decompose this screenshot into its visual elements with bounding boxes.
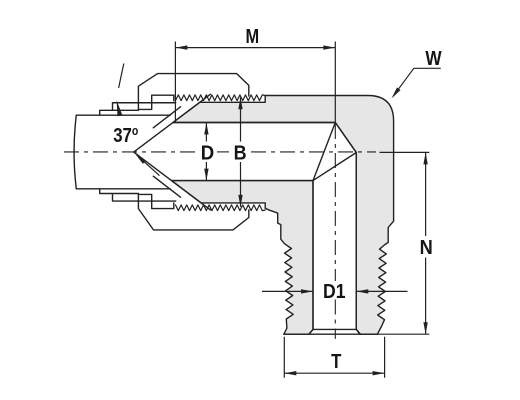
centerline dash between D and B bbox=[217, 151, 229, 153]
dimension D1 lines bbox=[262, 290, 408, 292]
sleeve lower bbox=[100, 189, 176, 209]
bore top wall bbox=[173, 122, 335, 124]
dimension M line bbox=[175, 47, 335, 49]
dimension N extension lines bbox=[377, 152, 429, 334]
vertical bore walls with exit chamfer bbox=[309, 153, 361, 335]
dimension T extension lines bbox=[284, 337, 384, 378]
dimension M extension lines bbox=[175, 42, 335, 123]
bore bottom wall bbox=[172, 180, 314, 182]
leader arrow to sleeve bbox=[119, 64, 124, 89]
tube (left, broken end) bbox=[76, 115, 170, 189]
tube flare (inner cone edges) bbox=[153, 107, 180, 197]
dimension D lines bbox=[205, 123, 207, 181]
bottom face bbox=[284, 333, 378, 335]
vertical centerline of bottom port bbox=[334, 124, 336, 281]
body elbow (gray cross-section, lower-left mass) bbox=[172, 181, 314, 335]
male threads + nut threads (meshed) bbox=[176, 95, 266, 211]
leader W bbox=[393, 68, 441, 96]
cone transition triangle bbox=[313, 123, 356, 181]
body elbow (gray cross-section, upper-right mass) bbox=[173, 96, 394, 335]
svg-text:D: D bbox=[201, 143, 214, 165]
body outline upper-right bbox=[173, 96, 394, 335]
sleeve upper bbox=[100, 95, 176, 115]
bore exit chamfer ring line bbox=[313, 328, 356, 330]
svg-text:B: B bbox=[234, 143, 247, 165]
leader 37deg bbox=[138, 156, 160, 175]
horizontal centerline bbox=[64, 151, 198, 153]
swivel nut outline lower bbox=[138, 194, 248, 230]
37deg flare cone lines bbox=[134, 94, 211, 210]
svg-text:M: M bbox=[245, 24, 259, 47]
body outline lower-left bbox=[172, 181, 314, 335]
svg-text:D1: D1 bbox=[323, 280, 345, 302]
swivel nut outline upper bbox=[138, 74, 248, 110]
svg-text:N: N bbox=[420, 237, 433, 259]
svg-text:T: T bbox=[331, 350, 342, 373]
svg-text:W: W bbox=[425, 47, 442, 70]
dimension T line bbox=[284, 372, 384, 374]
dimension B lines bbox=[240, 97, 242, 207]
dimension N line bbox=[425, 152, 427, 334]
